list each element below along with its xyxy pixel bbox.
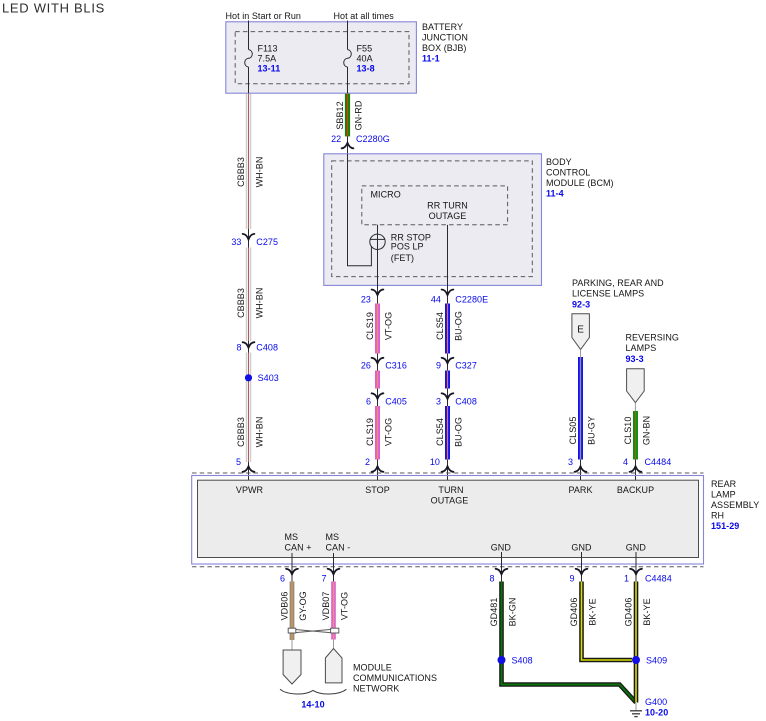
svg-text:13-11: 13-11 [258,64,281,74]
svg-text:C408: C408 [455,396,477,406]
svg-text:RH: RH [711,511,724,521]
rear lamp assembly RH box [192,476,704,565]
connector C327 pin 9 [436,354,477,371]
svg-text:PARK: PARK [568,485,592,495]
svg-text:40A: 40A [357,54,373,64]
svg-text:MS: MS [326,532,340,542]
svg-text:TURN: TURN [438,485,463,495]
splice S409 [632,656,667,666]
connector C2280G pin 22 [331,134,390,154]
svg-text:GND: GND [571,543,592,553]
svg-text:Hot at all times: Hot at all times [334,11,395,21]
pin 10 TURN [430,457,454,487]
wire CLS19 VT-OG bar 2 [375,371,380,389]
svg-text:MS: MS [285,532,299,542]
battery junction box BJB [226,22,417,93]
svg-text:6: 6 [280,574,285,584]
connector C408 pin 8 [236,341,278,353]
svg-text:GN-BN: GN-BN [642,416,652,445]
svg-text:8: 8 [236,343,241,353]
svg-text:STOP: STOP [365,485,390,495]
splice S403 [245,373,279,383]
svg-text:9: 9 [436,361,441,371]
svg-text:WH-BN: WH-BN [255,417,265,448]
svg-text:VPWR: VPWR [236,485,264,495]
wire VDB06 GY-OG [279,582,308,641]
svg-text:MICRO: MICRO [371,190,401,200]
connector C405 pin 6 [366,389,407,407]
twisted pair symbol [288,628,339,633]
svg-text:F113: F113 [258,44,278,54]
svg-text:S403: S403 [258,373,279,383]
wire CLS54 BU-OG bar 2 [445,371,450,389]
svg-text:VDB06: VDB06 [279,592,289,621]
svg-text:BK-GN: BK-GN [508,598,518,627]
svg-text:14-10: 14-10 [301,700,324,710]
svg-text:CLS19: CLS19 [365,418,375,446]
svg-text:LAMPS: LAMPS [626,343,657,353]
wire CLS54 BU-OG bar 3 [435,406,464,460]
wire CLS10 GN-BN [623,411,652,460]
svg-text:CLS19: CLS19 [365,312,375,340]
svg-text:BU-OG: BU-OG [454,311,464,341]
svg-text:OUTAGE: OUTAGE [431,496,469,506]
svg-text:F55: F55 [357,44,373,54]
svg-text:23: 23 [361,295,371,305]
brace module communications network [280,689,346,694]
svg-text:BK-YE: BK-YE [642,598,652,625]
svg-text:10-20: 10-20 [645,708,668,718]
lamp feed pentagon E [572,314,590,350]
svg-text:S408: S408 [512,656,533,666]
svg-text:8: 8 [489,574,494,584]
svg-text:1: 1 [624,574,629,584]
svg-text:PARKING, REAR AND: PARKING, REAR AND [572,278,664,288]
svg-text:G400: G400 [645,697,667,707]
pin 2 STOP [365,457,383,487]
wire RR TURN OUTAGE to pin 44 [447,225,449,286]
micro box [362,186,508,225]
pin 7 MS CAN - [321,553,339,584]
svg-text:BU-OG: BU-OG [454,417,464,447]
svg-text:151-29: 151-29 [711,521,739,531]
wire stem to network pentagon left [291,640,293,650]
svg-text:33: 33 [231,237,241,247]
wire CLS05 BU-GY [568,357,597,460]
svg-text:REAR: REAR [711,479,737,489]
svg-text:CAN +: CAN + [285,543,312,553]
ground G400 [630,697,668,718]
svg-text:GY-OG: GY-OG [298,591,308,620]
body control module BCM [324,154,542,286]
svg-text:2: 2 [365,457,370,467]
wire micro to FET [377,225,379,234]
wire GD406 BK-YE pin 9 [569,582,632,661]
svg-text:NETWORK: NETWORK [353,684,399,694]
svg-text:REVERSING: REVERSING [626,333,679,343]
pin 6 MS CAN + [280,553,298,584]
svg-text:GD481: GD481 [489,598,499,627]
connector C2280E pin 23 [361,286,384,305]
svg-text:GD406: GD406 [623,598,633,627]
svg-text:5: 5 [236,457,241,467]
svg-text:BOX (BJB): BOX (BJB) [422,43,466,53]
svg-text:POS LP: POS LP [391,242,424,252]
svg-text:COMMUNICATIONS: COMMUNICATIONS [353,673,437,683]
wire FET to pin 23 [377,249,379,285]
svg-text:C275: C275 [256,237,278,247]
svg-text:ASSEMBLY: ASSEMBLY [711,500,759,510]
network pentagon pin 6 [283,650,301,684]
svg-text:CLS54: CLS54 [435,312,445,340]
svg-text:26: 26 [361,361,371,371]
svg-text:CBBB3: CBBB3 [236,157,246,187]
svg-text:CBBB3: CBBB3 [236,288,246,318]
svg-text:CLS05: CLS05 [568,417,578,445]
connector C275 pin 33 [231,229,278,248]
svg-text:CAN -: CAN - [326,543,351,553]
svg-text:JUNCTION: JUNCTION [422,33,468,43]
wire CBBB3 WH-BN segment 3 [236,353,265,463]
svg-text:22: 22 [331,134,341,144]
svg-text:RR TURN: RR TURN [427,201,468,211]
svg-text:SBB12: SBB12 [335,101,345,129]
wire VDB07 VT-OG [321,582,350,640]
wire CLS19 VT-OG bar 1 [365,304,394,354]
svg-text:LICENSE LAMPS: LICENSE LAMPS [572,289,644,299]
svg-text:BACKUP: BACKUP [617,485,654,495]
wire VPWR inside BCM [348,154,372,266]
svg-text:C327: C327 [455,361,477,371]
svg-text:BU-GY: BU-GY [587,416,597,445]
pin 9 GND [569,552,587,584]
svg-text:BODY: BODY [546,157,572,167]
connector C4484 dashed boundary bottom [192,566,704,568]
svg-text:S409: S409 [646,656,667,666]
svg-text:GN-RD: GN-RD [354,100,364,130]
svg-text:93-3: 93-3 [626,354,644,364]
svg-text:3: 3 [568,457,573,467]
wire feed F55 [347,21,349,50]
svg-text:CONTROL: CONTROL [546,168,590,178]
svg-text:11-4: 11-4 [546,189,564,199]
connector C408 pin 3 [436,389,477,407]
svg-text:MODULE: MODULE [353,663,392,673]
svg-text:7: 7 [321,574,326,584]
svg-text:C4484: C4484 [645,457,672,467]
wire GD481 BK-GN [489,582,636,703]
svg-text:9: 9 [569,574,574,584]
svg-text:4: 4 [623,457,628,467]
wire CBBB3 WH-BN segment 2 [236,248,265,342]
wire SBB12 GN-RD [335,94,364,137]
svg-text:C405: C405 [385,396,407,406]
network pentagon pin 7 [325,649,342,683]
svg-text:GND: GND [491,543,512,553]
pin 4 BACKUP connector C4484 [623,457,671,487]
svg-text:LAMP: LAMP [711,490,736,500]
svg-text:C316: C316 [385,361,407,371]
svg-text:C4484: C4484 [645,574,672,584]
wire CLS19 VT-OG bar 3 [365,406,394,460]
svg-text:VT-OG: VT-OG [340,592,350,620]
wire feed F113 [248,21,250,50]
svg-text:LED WITH BLIS: LED WITH BLIS [2,1,105,16]
pin 3 PARK [568,457,586,487]
svg-text:92-3: 92-3 [572,300,590,310]
svg-text:44: 44 [431,295,441,305]
svg-text:GND: GND [626,543,647,553]
svg-text:7.5A: 7.5A [258,54,277,64]
svg-text:6: 6 [366,396,371,406]
svg-text:GD406: GD406 [569,598,579,627]
wire GD406 BK-YE pin 1 [623,582,652,703]
wire stem reversing [634,403,636,411]
lamp feed pentagon reversing [627,369,645,403]
pin 8 GND [489,552,507,584]
svg-text:WH-BN: WH-BN [255,288,265,319]
connector C4484 dashed boundary top [192,472,704,474]
svg-text:10: 10 [430,457,440,467]
svg-text:VDB07: VDB07 [321,592,331,621]
splice S408 [498,656,533,666]
svg-text:E: E [577,325,584,336]
svg-text:CLS54: CLS54 [435,418,445,446]
fuse F55 40A [344,50,352,68]
pin 5 VPWR [236,457,254,487]
connector C316 pin 26 [361,354,407,371]
connector C2280E pin 44 [431,286,488,305]
wire stem to network pentagon right [333,640,335,649]
svg-text:13-8: 13-8 [357,64,375,74]
FET driver RR STOP POS LP [370,233,431,264]
svg-text:CBBB3: CBBB3 [236,417,246,447]
wire CLS54 BU-OG bar 1 [435,304,464,354]
svg-text:BK-YE: BK-YE [588,598,598,625]
fuse F113 7.5A [245,50,253,68]
svg-text:11-1: 11-1 [422,54,440,64]
svg-text:VT-OG: VT-OG [384,312,394,340]
svg-text:BATTERY: BATTERY [422,22,463,32]
pin 1 GND connector C4484 [624,552,672,584]
svg-text:MODULE (BCM): MODULE (BCM) [546,178,614,188]
wire CBBB3 WH-BN segment 1 [236,94,265,229]
svg-text:3: 3 [436,396,441,406]
svg-text:(FET): (FET) [391,253,414,263]
svg-text:C2280E: C2280E [455,295,488,305]
svg-text:C408: C408 [256,343,278,353]
svg-text:Hot in Start or Run: Hot in Start or Run [226,11,301,21]
svg-text:C2280G: C2280G [356,134,390,144]
svg-text:CLS10: CLS10 [623,417,633,445]
svg-text:WH-BN: WH-BN [255,157,265,188]
svg-text:OUTAGE: OUTAGE [429,211,467,221]
wire stem E [580,350,582,358]
svg-text:VT-OG: VT-OG [384,418,394,446]
